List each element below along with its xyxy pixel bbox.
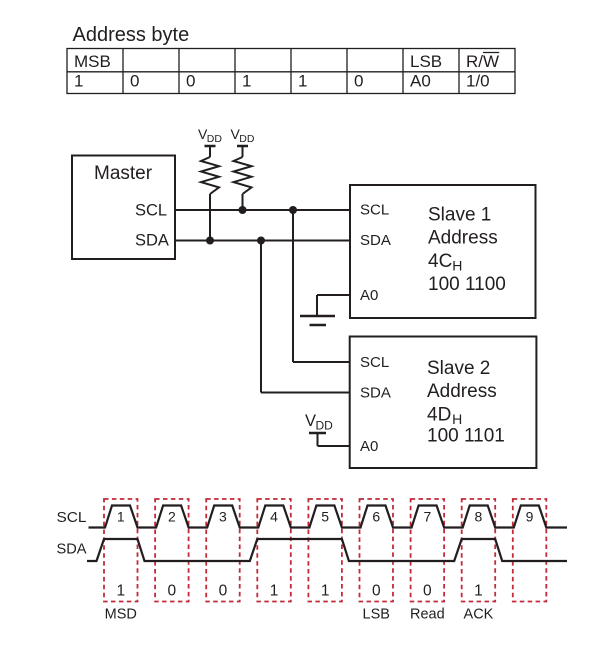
svg-text:0: 0: [354, 72, 363, 91]
svg-text:ACK: ACK: [464, 607, 494, 623]
svg-text:7: 7: [423, 509, 431, 525]
svg-text:LSB: LSB: [410, 52, 442, 71]
svg-text:0: 0: [186, 72, 195, 91]
svg-text:A0: A0: [360, 287, 378, 304]
svg-text:1: 1: [474, 583, 483, 600]
svg-text:Master: Master: [94, 163, 153, 184]
svg-text:4C: 4C: [428, 251, 452, 272]
svg-text:0: 0: [372, 583, 381, 600]
svg-text:SCL: SCL: [360, 202, 389, 219]
svg-text:Read: Read: [410, 607, 445, 623]
svg-text:0: 0: [219, 583, 228, 600]
svg-text:DD: DD: [239, 133, 255, 145]
svg-text:SDA: SDA: [57, 541, 87, 558]
svg-text:Address: Address: [428, 228, 498, 249]
svg-text:MSB: MSB: [74, 52, 111, 71]
svg-text:SDA: SDA: [360, 385, 391, 402]
svg-text:Slave 2: Slave 2: [427, 358, 490, 379]
svg-text:0: 0: [130, 72, 139, 91]
svg-text:9: 9: [526, 509, 534, 525]
svg-text:DD: DD: [316, 418, 334, 432]
svg-text:4: 4: [270, 509, 278, 525]
svg-text:1: 1: [270, 583, 279, 600]
svg-text:8: 8: [475, 509, 483, 525]
svg-text:1: 1: [321, 583, 330, 600]
svg-text:0: 0: [168, 583, 177, 600]
svg-text:1: 1: [74, 72, 83, 91]
svg-text:H: H: [452, 411, 462, 427]
svg-text:Address: Address: [427, 381, 497, 402]
svg-text:A0: A0: [410, 72, 431, 91]
svg-text:SDA: SDA: [135, 232, 169, 250]
svg-text:1/0: 1/0: [466, 72, 490, 91]
svg-text:Address byte: Address byte: [73, 24, 190, 46]
svg-text:SCL: SCL: [360, 354, 389, 371]
svg-text:SCL: SCL: [57, 509, 87, 526]
svg-text:1: 1: [298, 72, 307, 91]
svg-text:5: 5: [321, 509, 329, 525]
svg-text:100 1100: 100 1100: [428, 274, 506, 295]
svg-text:1: 1: [242, 72, 251, 91]
svg-text:LSB: LSB: [363, 607, 390, 623]
svg-text:0: 0: [423, 583, 432, 600]
svg-text:1: 1: [117, 509, 125, 525]
svg-text:A0: A0: [360, 438, 378, 455]
svg-text:4D: 4D: [427, 404, 451, 425]
svg-text:MSD: MSD: [105, 607, 137, 623]
svg-text:DD: DD: [207, 133, 223, 145]
svg-text:6: 6: [372, 509, 380, 525]
svg-text:H: H: [452, 258, 462, 274]
svg-text:SCL: SCL: [135, 201, 167, 219]
svg-text:SDA: SDA: [360, 232, 391, 249]
svg-text:Slave 1: Slave 1: [428, 205, 491, 226]
svg-text:1: 1: [116, 583, 125, 600]
svg-text:2: 2: [168, 509, 176, 525]
svg-text:3: 3: [219, 509, 227, 525]
svg-text:R/W: R/W: [466, 52, 499, 71]
svg-text:V: V: [305, 412, 316, 430]
svg-text:100 1101: 100 1101: [427, 426, 505, 447]
